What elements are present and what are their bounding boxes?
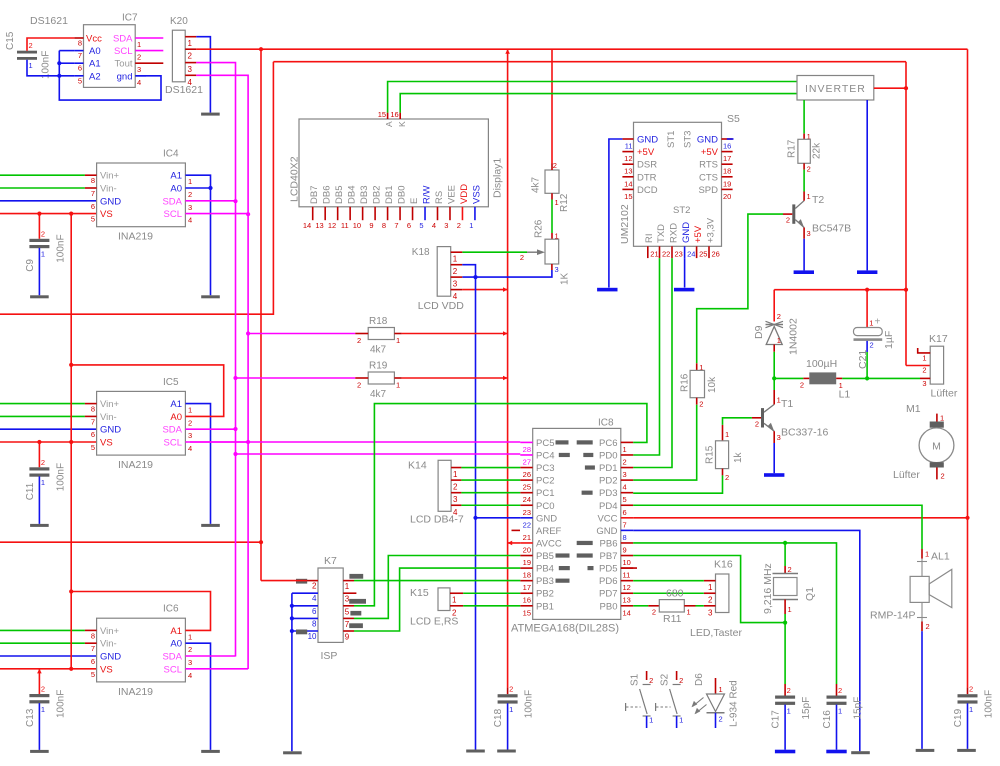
wire green LCD K to inverter <box>400 94 797 113</box>
svg-text:100nF: 100nF <box>524 690 535 718</box>
svg-text:3: 3 <box>444 221 448 230</box>
svg-text:UM2102: UM2102 <box>619 204 631 244</box>
svg-text:1: 1 <box>188 177 192 186</box>
connector K14 LCD DB4-7 <box>408 460 520 526</box>
svg-text:16: 16 <box>523 596 531 605</box>
wire blue C18 to ground <box>507 703 509 749</box>
svg-text:2: 2 <box>509 685 513 694</box>
resistor R15 1k <box>705 425 745 482</box>
svg-text:6: 6 <box>91 430 95 439</box>
svg-text:2: 2 <box>137 53 141 62</box>
svg-text:2: 2 <box>357 336 361 345</box>
svg-text:T2: T2 <box>812 194 824 206</box>
svg-text:LCD DB4-7: LCD DB4-7 <box>410 514 464 526</box>
svg-text:R16: R16 <box>680 373 691 392</box>
wire blue GND IC5 <box>0 428 97 430</box>
wire blue IC8 GND right to ground <box>633 530 860 751</box>
svg-text:2: 2 <box>520 253 524 262</box>
svg-text:A1: A1 <box>170 399 182 410</box>
svg-text:VSS: VSS <box>471 185 482 204</box>
svg-text:PB1: PB1 <box>536 601 554 612</box>
svg-text:IC5: IC5 <box>163 377 179 388</box>
connector K7 ISP <box>292 555 366 662</box>
wire magenta SCL to R18 <box>248 333 355 335</box>
svg-text:3: 3 <box>188 203 192 212</box>
svg-text:C11: C11 <box>25 482 36 500</box>
capacitor C9 <box>25 229 67 271</box>
wire green K7 pin1 to PB3 <box>354 580 520 582</box>
wire SDA IC4 <box>185 200 235 202</box>
wire green R15 to PD3 <box>633 475 722 493</box>
svg-text:ST2: ST2 <box>673 205 690 216</box>
svg-text:A: A <box>384 121 394 127</box>
svg-text:2: 2 <box>29 41 33 50</box>
svg-text:PC6: PC6 <box>599 438 617 449</box>
svg-text:3: 3 <box>453 280 458 289</box>
svg-text:IC6: IC6 <box>163 604 179 615</box>
svg-text:A1: A1 <box>170 626 182 637</box>
svg-text:5: 5 <box>78 76 82 85</box>
svg-text:D6: D6 <box>694 673 705 686</box>
wire green K7 pin7 to PB5 <box>354 556 520 619</box>
svg-text:10: 10 <box>353 221 361 230</box>
crystal Q1 9.216 MHz <box>762 563 816 614</box>
svg-text:22k: 22k <box>812 142 823 159</box>
svg-text:2: 2 <box>755 420 759 429</box>
svg-text:R/W: R/W <box>421 186 432 205</box>
svg-text:2: 2 <box>623 457 627 466</box>
svg-text:+5V: +5V <box>637 147 655 158</box>
wire blue GND IC6 <box>0 655 97 657</box>
svg-text:7: 7 <box>91 644 95 653</box>
capacitor C13 <box>25 685 67 728</box>
wire red vertical x906 <box>904 62 908 366</box>
wire green R17 to T2 collector <box>803 170 805 192</box>
svg-text:PD7: PD7 <box>599 589 617 600</box>
svg-text:C17: C17 <box>771 710 782 729</box>
svg-text:SDA: SDA <box>162 652 182 663</box>
svg-text:SPD: SPD <box>698 185 718 196</box>
wire blue A0 A1 A2 bus at IC7 <box>57 51 74 78</box>
svg-text:4k7: 4k7 <box>370 389 387 400</box>
svg-text:ATMEGA168(DIL28S): ATMEGA168(DIL28S) <box>511 623 619 635</box>
svg-text:19: 19 <box>523 558 531 567</box>
svg-text:1N4002: 1N4002 <box>788 318 800 355</box>
svg-text:1: 1 <box>188 39 193 48</box>
wire green Q1 to C17 junction <box>783 614 787 684</box>
ground at K20 <box>201 113 220 116</box>
svg-text:C13: C13 <box>25 708 36 727</box>
ground at blue vertical x475 <box>466 750 485 753</box>
svg-text:GND: GND <box>536 513 557 524</box>
svg-text:K16: K16 <box>714 559 733 571</box>
svg-text:2: 2 <box>553 161 557 170</box>
IC U IC4 INA219 <box>85 149 192 243</box>
svg-text:10: 10 <box>308 632 317 641</box>
svg-text:1: 1 <box>719 685 723 694</box>
svg-text:DB7: DB7 <box>309 186 320 204</box>
svg-text:C18: C18 <box>493 708 504 727</box>
svg-text:INA219: INA219 <box>118 231 153 243</box>
svg-text:2: 2 <box>453 483 458 492</box>
svg-text:7: 7 <box>91 417 95 426</box>
svg-text:K18: K18 <box>412 247 430 258</box>
svg-text:Display1: Display1 <box>492 158 504 198</box>
wire green PD6 to K16 pin1 <box>633 580 704 582</box>
wire A1 IC6 <box>69 589 210 630</box>
wire green PC6 reset to K7 pin5 <box>354 404 647 606</box>
svg-text:11: 11 <box>623 571 631 580</box>
svg-text:2: 2 <box>926 622 930 631</box>
ground at S5 left <box>597 288 617 292</box>
ground at S5 ST2 <box>674 288 694 292</box>
svg-text:1: 1 <box>788 605 792 614</box>
ground at K7 <box>283 751 302 754</box>
svg-text:100nF: 100nF <box>55 234 66 262</box>
wire SCL IC4 <box>185 213 248 215</box>
wire green R16 to PD2 <box>633 405 697 480</box>
wire net Vcc IC7 to C15 <box>27 38 74 51</box>
svg-text:A0: A0 <box>170 639 182 650</box>
svg-text:C19: C19 <box>953 708 964 727</box>
svg-text:3: 3 <box>345 595 350 604</box>
svg-text:1: 1 <box>555 198 559 207</box>
connector K20 <box>165 16 203 96</box>
svg-text:17: 17 <box>523 583 531 592</box>
wire red VS IC5 <box>0 441 97 443</box>
svg-text:R15: R15 <box>705 445 716 464</box>
wire A0 IC4 <box>185 186 212 190</box>
IC IC8 ATMEGA168 <box>511 418 633 635</box>
svg-text:6: 6 <box>91 202 95 211</box>
svg-text:+3,3V: +3,3V <box>705 217 716 243</box>
svg-text:9,216 MHz: 9,216 MHz <box>762 563 774 614</box>
svg-text:PD6: PD6 <box>599 576 617 587</box>
svg-text:LCD40X2: LCD40X2 <box>289 156 301 202</box>
svg-text:100nF: 100nF <box>41 51 52 79</box>
ground at C19 <box>957 749 976 752</box>
wire A0 IC5 <box>69 363 224 417</box>
svg-text:100µH: 100µH <box>806 358 837 370</box>
svg-text:100nF: 100nF <box>984 690 995 718</box>
wire green VCC right <box>633 517 967 519</box>
ground at C9 <box>30 295 49 298</box>
svg-text:5: 5 <box>91 215 95 224</box>
IC S5 UM2102 <box>619 113 740 259</box>
svg-text:16: 16 <box>723 142 731 151</box>
svg-text:11: 11 <box>341 221 349 230</box>
svg-text:ST1: ST1 <box>666 131 677 148</box>
svg-text:15: 15 <box>378 110 386 119</box>
svg-text:Vin+: Vin+ <box>100 171 120 182</box>
wire blue S5 GND left to ground <box>609 139 623 288</box>
svg-text:VCC: VCC <box>597 513 617 524</box>
wire blue K7 gnd pins <box>290 593 294 751</box>
svg-text:IC8: IC8 <box>598 418 614 429</box>
switch S1 Taster <box>626 671 654 728</box>
svg-text:25: 25 <box>523 483 531 492</box>
switch S2 Taster <box>656 671 684 728</box>
IC U IC7 DS1621 <box>30 13 163 88</box>
wire green RXD to PD1 <box>633 258 672 467</box>
wire green K7 pin9 to PB4 <box>354 568 520 631</box>
svg-text:PB0: PB0 <box>600 601 618 612</box>
ground at IC5 address pins <box>201 524 220 527</box>
svg-text:25: 25 <box>699 250 707 259</box>
svg-text:PB7: PB7 <box>600 551 618 562</box>
svg-text:23: 23 <box>675 250 683 259</box>
svg-text:DB1: DB1 <box>384 186 395 204</box>
svg-text:PD0: PD0 <box>599 450 617 461</box>
wire SDA IC5 <box>185 428 235 430</box>
IC Display1 LCD40X2 <box>289 110 504 230</box>
wire green PB7 to Q1 <box>633 556 785 623</box>
svg-text:1: 1 <box>469 221 473 230</box>
wire +5V bus2 horizontal <box>273 61 906 63</box>
wire red R18 to +5V <box>402 331 508 336</box>
svg-text:RS: RS <box>434 191 445 204</box>
wire blue IC8 GND left <box>476 517 521 519</box>
svg-text:3: 3 <box>922 379 926 388</box>
svg-text:C15: C15 <box>5 31 16 50</box>
wire green Vin- IC6 <box>0 642 85 644</box>
svg-text:L1: L1 <box>839 389 851 401</box>
svg-text:gnd: gnd <box>117 71 133 82</box>
svg-text:1: 1 <box>137 40 141 49</box>
svg-text:SDA: SDA <box>162 425 182 436</box>
svg-text:4: 4 <box>137 78 141 87</box>
svg-text:2: 2 <box>725 473 729 482</box>
svg-text:DCD: DCD <box>637 185 658 196</box>
svg-text:PB6: PB6 <box>600 538 618 549</box>
svg-text:4: 4 <box>432 221 436 230</box>
svg-text:E: E <box>409 198 420 204</box>
svg-text:21: 21 <box>523 533 531 542</box>
svg-text:A0: A0 <box>170 184 182 195</box>
svg-text:2: 2 <box>807 165 811 174</box>
wire blue K20 pin1 to ground <box>196 37 210 113</box>
wire red VS IC6 <box>0 668 97 670</box>
svg-text:S1: S1 <box>629 673 640 686</box>
ground at IC8 GND right <box>851 751 870 754</box>
wire green TXD to PD0 <box>633 258 659 455</box>
svg-text:DS1621: DS1621 <box>165 84 203 96</box>
svg-text:680: 680 <box>666 588 684 600</box>
svg-text:C16: C16 <box>822 710 833 729</box>
svg-text:GND: GND <box>637 135 658 146</box>
svg-text:1: 1 <box>869 319 873 328</box>
svg-text:3: 3 <box>188 658 192 667</box>
svg-text:24: 24 <box>687 250 695 259</box>
svg-text:9: 9 <box>623 545 627 554</box>
svg-text:Vin-: Vin- <box>100 639 117 650</box>
svg-text:1: 1 <box>725 430 729 439</box>
svg-text:6: 6 <box>623 508 627 517</box>
svg-text:GND: GND <box>100 652 121 663</box>
wire red VS IC4 <box>0 213 97 215</box>
svg-text:5: 5 <box>419 221 423 230</box>
svg-text:21: 21 <box>650 250 658 259</box>
svg-text:15: 15 <box>523 608 531 617</box>
svg-text:A0: A0 <box>89 46 101 57</box>
svg-text:DB4: DB4 <box>347 186 358 204</box>
svg-text:1: 1 <box>679 716 683 725</box>
wire red PB7 PD5 stubs <box>621 567 637 569</box>
wire green Vin+ IC6 <box>0 629 85 631</box>
svg-text:R18: R18 <box>369 316 388 327</box>
svg-text:PC1: PC1 <box>536 488 554 499</box>
svg-text:1: 1 <box>649 716 653 725</box>
svg-text:100nF: 100nF <box>55 463 66 491</box>
wire red INVERTER to +5V <box>874 86 908 90</box>
svg-text:2: 2 <box>969 685 973 694</box>
svg-text:2: 2 <box>41 229 45 238</box>
svg-text:Vin+: Vin+ <box>100 399 120 410</box>
capacitor C16 15pF <box>822 684 864 729</box>
svg-text:SDA: SDA <box>113 34 133 45</box>
svg-text:VS: VS <box>100 209 113 220</box>
svg-text:Lüfter: Lüfter <box>931 388 958 400</box>
svg-text:RI: RI <box>644 234 655 244</box>
svg-text:VDD: VDD <box>459 184 470 204</box>
svg-text:VS: VS <box>100 438 113 449</box>
svg-text:PD5: PD5 <box>599 564 617 575</box>
svg-text:INA219: INA219 <box>118 459 153 471</box>
svg-text:1: 1 <box>807 192 811 201</box>
svg-text:2: 2 <box>357 381 361 390</box>
svg-text:2: 2 <box>41 685 45 694</box>
svg-text:3: 3 <box>137 65 141 74</box>
wire blue AL1 to ground <box>921 631 923 749</box>
svg-text:7: 7 <box>623 520 627 529</box>
svg-text:DTR: DTR <box>637 172 657 183</box>
svg-text:VEE: VEE <box>446 185 457 204</box>
resistor R19 4k7 <box>355 361 401 401</box>
motor M1 Luefter <box>893 403 954 481</box>
capacitor C18 100nF <box>493 685 534 728</box>
svg-text:1: 1 <box>838 706 842 715</box>
svg-text:7: 7 <box>91 189 95 198</box>
svg-text:10k: 10k <box>707 376 718 393</box>
svg-text:A1: A1 <box>89 59 101 70</box>
svg-text:AL1: AL1 <box>931 551 950 563</box>
wire magenta SDA to R19 <box>236 377 356 379</box>
ground at T1 <box>764 473 784 477</box>
capacitor C17 15pF <box>771 684 813 729</box>
svg-text:5: 5 <box>91 443 95 452</box>
wire red vertical x273 to left bus <box>0 62 273 315</box>
svg-text:Vcc: Vcc <box>86 34 102 45</box>
svg-text:1: 1 <box>687 608 691 617</box>
svg-text:A1: A1 <box>170 171 182 182</box>
svg-text:1: 1 <box>623 445 627 454</box>
svg-text:8: 8 <box>382 221 386 230</box>
ground at IC4 address pins <box>201 295 220 298</box>
svg-text:3: 3 <box>188 65 193 74</box>
svg-text:3: 3 <box>623 470 627 479</box>
svg-text:PD4: PD4 <box>599 501 617 512</box>
svg-text:M1: M1 <box>906 403 921 415</box>
svg-text:4: 4 <box>623 483 627 492</box>
svg-text:4: 4 <box>188 444 192 453</box>
ground at IC6 address pins <box>201 750 220 753</box>
wire blue C15 to A2 <box>27 60 74 76</box>
svg-text:23: 23 <box>523 508 531 517</box>
wire blue IC7 gnd loop <box>59 76 161 100</box>
svg-text:1: 1 <box>345 582 350 591</box>
svg-text:CTS: CTS <box>699 172 718 183</box>
svg-text:1: 1 <box>41 250 45 259</box>
wire green PD7 to K16 pin2 <box>633 592 704 594</box>
wire red K7 pin2 to +5V <box>261 580 307 582</box>
svg-text:2: 2 <box>708 596 713 605</box>
svg-text:13: 13 <box>623 596 631 605</box>
wire A1 IC5 <box>185 404 210 524</box>
svg-text:SCL: SCL <box>164 438 182 449</box>
capacitor C11 <box>25 458 67 501</box>
svg-text:19: 19 <box>723 179 731 188</box>
svg-text:13: 13 <box>315 221 323 230</box>
svg-text:1: 1 <box>969 705 973 714</box>
svg-text:DSR: DSR <box>637 160 657 171</box>
wire A0 IC6 <box>185 643 210 750</box>
svg-text:2: 2 <box>699 400 703 409</box>
svg-text:Vin+: Vin+ <box>100 626 120 637</box>
svg-text:26: 26 <box>523 470 531 479</box>
wire blue C11 to ground <box>38 476 40 524</box>
svg-text:6: 6 <box>78 64 82 73</box>
svg-text:VS: VS <box>100 664 113 675</box>
svg-text:INA219: INA219 <box>118 686 153 698</box>
svg-text:D9: D9 <box>753 325 765 339</box>
svg-text:SDA: SDA <box>162 196 182 207</box>
svg-text:7: 7 <box>78 51 82 60</box>
svg-text:4k7: 4k7 <box>370 345 387 356</box>
svg-text:10: 10 <box>623 558 631 567</box>
svg-text:T1: T1 <box>781 398 793 410</box>
svg-text:PB2: PB2 <box>536 589 554 600</box>
svg-text:1: 1 <box>452 596 457 605</box>
ground at INVERTER <box>857 270 877 274</box>
ground at C11 <box>30 524 49 527</box>
svg-text:1: 1 <box>787 706 791 715</box>
wire green T2 base to R16 <box>697 214 783 363</box>
wire net SDA vertical <box>196 63 237 657</box>
svg-text:AVCC: AVCC <box>536 538 562 549</box>
svg-text:14: 14 <box>624 179 632 188</box>
IC U IC6 INA219 <box>85 604 192 698</box>
svg-text:14: 14 <box>303 221 311 230</box>
ground at C17 <box>775 750 795 754</box>
svg-text:1: 1 <box>29 61 33 70</box>
svg-text:2: 2 <box>312 582 317 591</box>
svg-text:2: 2 <box>941 472 945 481</box>
svg-text:1K: 1K <box>560 272 571 285</box>
svg-text:4: 4 <box>188 671 192 680</box>
svg-text:PB3: PB3 <box>536 576 554 587</box>
connector K16 LED Taster <box>690 559 742 640</box>
svg-text:5: 5 <box>91 670 95 679</box>
svg-text:Q1: Q1 <box>804 587 816 601</box>
wire red bus4 left <box>0 541 261 543</box>
svg-text:1: 1 <box>453 470 458 479</box>
svg-text:GND: GND <box>100 425 121 436</box>
svg-text:DB6: DB6 <box>322 186 333 204</box>
svg-text:6: 6 <box>91 657 95 666</box>
svg-text:S2: S2 <box>659 673 670 686</box>
wire red vertical R12 feed <box>551 49 553 163</box>
svg-text:8: 8 <box>91 631 95 640</box>
